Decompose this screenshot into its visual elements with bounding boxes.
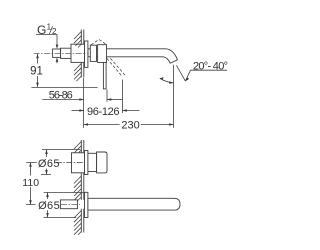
- wall hatching (bottom view) bottom: [74, 211, 81, 235]
- Ø65 top arrows: [45, 150, 48, 154]
- 110 dim line: [30, 163, 32, 205]
- 230 arrow right: [169, 123, 173, 126]
- 91 bottom reference line: [31, 87, 97, 89]
- svg-text:Ø65: Ø65: [38, 158, 60, 170]
- wall lines (bottom view): [81, 140, 84, 153]
- wall hatching (bottom view) middle: [74, 176, 81, 202]
- spout bar (front/plan): [88, 198, 180, 210]
- handle end cap: [97, 152, 107, 173]
- 56-86 arrow right: [79, 98, 83, 101]
- 110 arrows: [29, 163, 32, 167]
- Ø65 bottom arrows: [46, 193, 49, 197]
- spout collar A: [90, 45, 96, 61]
- spout unit centerline leader: [61, 203, 80, 205]
- union piece: [61, 48, 71, 58]
- wall hatching above (top view): [74, 32, 81, 48]
- arc left arrowhead: [160, 77, 164, 80]
- supply pipe stub (top view): [53, 49, 61, 57]
- dimension 56-86 line: [42, 99, 83, 101]
- svg-text:91: 91: [30, 65, 43, 77]
- Ø65 bottom dim line: [47, 193, 49, 218]
- concealed valve body block: [71, 44, 85, 62]
- svg-text:20°- 40°: 20°- 40°: [193, 60, 228, 72]
- G 1/2 arrow up at pipe bottom: [56, 57, 59, 61]
- 20-40 leader: [185, 70, 227, 81]
- svg-text:230: 230: [121, 120, 139, 132]
- svg-text:96-126: 96-126: [87, 106, 120, 118]
- handle unit flange: [85, 151, 88, 175]
- spout collar B (cartridge housing): [98, 45, 107, 63]
- wall flange / escutcheon (top view): [85, 41, 88, 67]
- handle unit concealed box: [72, 153, 85, 173]
- handle base cylinder: [88, 153, 97, 171]
- 96-126 right segment: [123, 110, 140, 112]
- handle unit centerline leader: [56, 162, 84, 164]
- centerline of supply/spout (top view): [34, 52, 86, 54]
- wall face extension line: [83, 78, 85, 128]
- Ø65 top: reference lines: [41, 150, 80, 175]
- 91 arrow down: [36, 83, 39, 87]
- dashed handle swung out: [107, 58, 126, 76]
- spout tip extension line: [173, 65, 175, 128]
- G 1/2 leader shelf and drop: [36, 35, 57, 46]
- spout unit supply stub: [60, 200, 77, 209]
- svg-text:56-86: 56-86: [49, 89, 73, 101]
- 91 arrow up: [36, 54, 39, 58]
- opposing arrow at handle-end ext: [107, 99, 123, 101]
- 96-126 right arrow: [123, 109, 127, 112]
- spout unit flange: [85, 192, 88, 217]
- 96-126 left arrow: [79, 109, 83, 112]
- dashed-handle-end extension line: [122, 80, 124, 114]
- spout (top view, side silhouette): [88, 49, 177, 63]
- dashed spout tilted up: [91, 40, 106, 45]
- wall hatching (bottom view) top: [74, 142, 81, 155]
- wall lines above assembly (top view): [81, 30, 84, 45]
- G 1/2 arrow down at pipe top: [56, 45, 59, 49]
- lever handle hanging down (top view): [103, 62, 106, 89]
- 230 arrow left: [84, 123, 88, 126]
- svg-text:Ø65: Ø65: [38, 200, 60, 212]
- wall lines below assembly (top view): [81, 63, 84, 78]
- dimension 230 line: [84, 124, 174, 126]
- dimension 96-126 left segment: [72, 110, 84, 112]
- handle end extension line: [106, 90, 108, 102]
- Ø65 bottom: reference lines: [44, 193, 84, 218]
- dimension 91 vertical line: [37, 54, 39, 87]
- Ø65 top dim line: [46, 150, 48, 175]
- dimension 110 refs: [26, 163, 37, 205]
- svg-text:110: 110: [22, 177, 39, 189]
- swing arc at spout tip: [160, 78, 174, 83]
- arc right arrowhead: [169, 81, 173, 84]
- outlet direction line: [176, 65, 185, 81]
- wall hatching below (top view): [74, 64, 81, 82]
